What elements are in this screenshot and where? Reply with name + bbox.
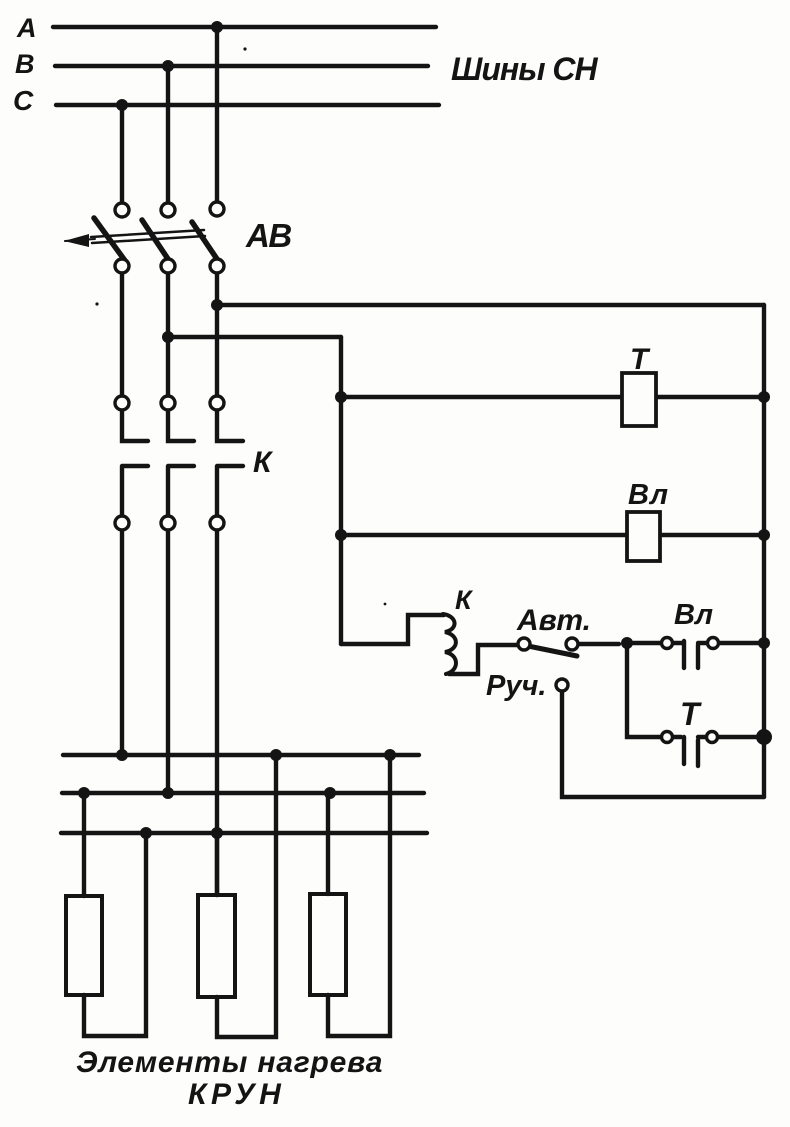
svg-text:Руч.: Руч. — [486, 670, 546, 702]
svg-text:Вл: Вл — [674, 599, 713, 631]
svg-text:В: В — [15, 49, 35, 79]
svg-text:А: А — [16, 13, 37, 43]
svg-text:С: С — [13, 85, 34, 116]
svg-text:К: К — [253, 446, 274, 479]
svg-text:Т: Т — [680, 696, 702, 732]
svg-text:Шины СН: Шины СН — [451, 51, 599, 87]
svg-text:К: К — [455, 585, 474, 615]
svg-text:Т: Т — [630, 343, 651, 376]
svg-text:КРУН: КРУН — [188, 1078, 285, 1111]
svg-text:Элементы нагрева: Элементы нагрева — [76, 1046, 383, 1079]
svg-text:АВ: АВ — [245, 217, 291, 254]
svg-text:Вл: Вл — [628, 479, 669, 511]
svg-text:Авт.: Авт. — [516, 604, 591, 637]
